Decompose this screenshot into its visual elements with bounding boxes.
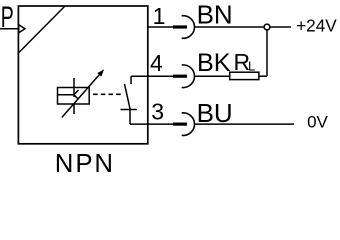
pin 3 wire (148, 123, 174, 125)
connector pin 4 socket arc (182, 65, 195, 88)
connector pin 3 socket arc (182, 113, 195, 136)
wire resistor to riser (259, 75, 267, 77)
switch S: lever (125, 84, 131, 110)
setpoint adjuster body (58, 88, 90, 105)
wire BN (195, 26, 291, 28)
svg-text:3: 3 (151, 99, 164, 125)
svg-text:NPN: NPN (55, 150, 115, 175)
adjustment arrow (diagonal) (62, 69, 104, 117)
actuation dashed link (93, 93, 121, 95)
wire BK (195, 75, 230, 77)
riser wire to junction (266, 29, 268, 76)
setpoint adjuster top stub (73, 78, 75, 97)
switch S: pin4 stub (131, 75, 148, 77)
setpoint internal line with arrowhead (58, 90, 79, 99)
junction node (264, 24, 270, 30)
pin 4 wire (148, 75, 174, 77)
pressure input arrow (0, 25, 25, 33)
sensor body box (18, 6, 147, 144)
wire BU (195, 123, 294, 125)
connector pin 4 plug (173, 75, 187, 78)
svg-text:L: L (248, 58, 255, 73)
svg-text:1: 1 (153, 3, 166, 29)
switch S: moving contact tick (121, 109, 138, 111)
switch S: lower vertical (129, 110, 131, 125)
connector pin 1 socket arc (182, 16, 195, 39)
pin 1 wire (148, 26, 174, 28)
svg-text:0V: 0V (307, 112, 328, 131)
svg-text:4: 4 (150, 50, 163, 76)
svg-text:BU: BU (197, 98, 233, 128)
connector pin 3 plug (173, 122, 187, 125)
sensor corner flag diagonal (18, 6, 65, 53)
load resistor RL (230, 72, 259, 79)
svg-text:+24V: +24V (296, 15, 337, 35)
setpoint adjuster bottom stub (73, 104, 75, 114)
svg-text:BK: BK (197, 49, 231, 77)
svg-text:BN: BN (197, 0, 233, 30)
switch S: pin3 stub (130, 123, 148, 125)
switch S: fixed contact tick (130, 76, 132, 84)
connector pin 1 plug (173, 25, 187, 28)
